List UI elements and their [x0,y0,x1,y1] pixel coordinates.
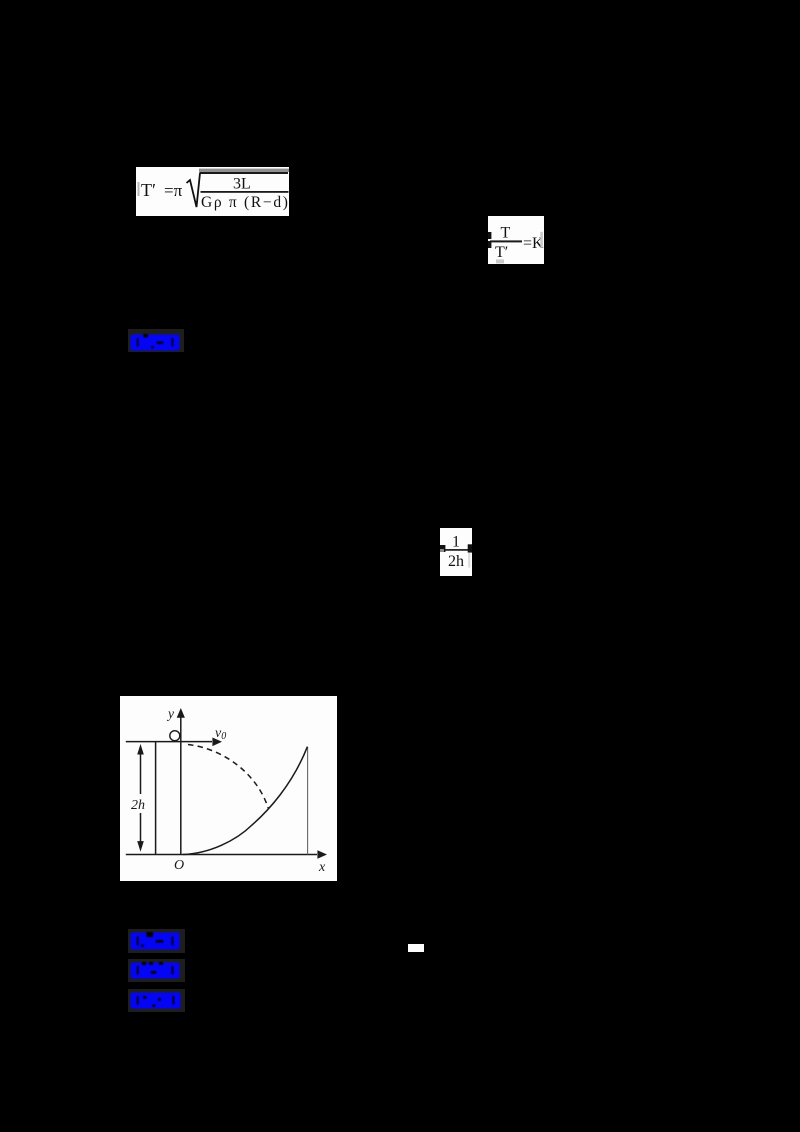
svg-text:y: y [166,706,174,721]
formula image 2: T/T' = K [488,216,544,264]
svg-text:2h: 2h [448,553,464,570]
2h arrowhead up [137,744,144,755]
formula image 1: T' = pi sqrt(3L/(G rho pi (R-d))) [136,167,289,216]
2h double arrow line upper [140,749,142,794]
x axis arrowhead [317,850,327,859]
clipped char left [440,545,445,552]
fraction bar [201,191,289,193]
dashed trajectory [188,745,269,810]
svg-text:O: O [174,858,184,873]
blue label D [128,989,185,1012]
wall line [155,742,157,855]
cursor bar [138,182,140,196]
fraction bar [445,549,468,551]
blue label A [128,329,184,352]
white dash [408,944,424,952]
gray strip top [199,169,289,172]
svg-text:3L: 3L [233,176,251,193]
svg-text:x: x [318,860,326,875]
figure: projectile diagram [120,696,337,881]
svg-text:1: 1 [452,534,460,551]
formula image 3: 1/2h [440,528,472,576]
svg-text:T′: T′ [495,244,508,261]
right vertical line [307,747,309,855]
svg-text:T: T [501,225,511,242]
blue label B [128,929,185,953]
y axis arrowhead [177,708,185,718]
y axis [180,713,182,855]
clipped char right [468,544,472,552]
svg-text:=π: =π [164,181,183,200]
fraction bar [490,240,522,242]
solid curve [183,747,307,855]
svg-text:T′: T′ [141,180,156,200]
clipped char left edge [488,232,491,239]
gray bar right [540,232,543,248]
x axis [126,854,317,856]
svg-text:2h: 2h [131,798,145,813]
svg-text:Gρ π (R−d): Gρ π (R−d) [201,194,289,211]
gray square bottom [496,259,504,263]
2h double arrow line lower [140,813,142,847]
svg-text:v0: v0 [215,726,226,742]
v0 arrowhead [212,738,222,747]
blue label C [128,959,185,982]
ball [170,731,180,741]
2h arrowhead down [137,841,144,852]
top line with v0 arrow [126,741,212,743]
radical sign [187,173,201,207]
radical overbar [200,172,289,174]
